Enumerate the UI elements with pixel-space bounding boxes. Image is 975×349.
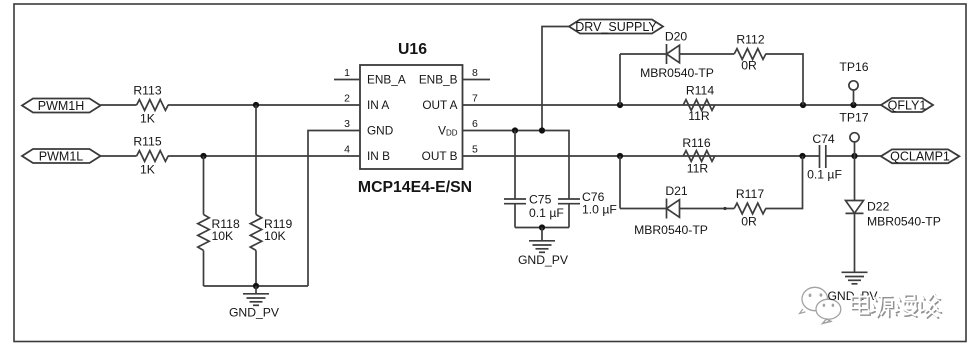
svg-text:ENB_B: ENB_B bbox=[419, 73, 458, 87]
svg-text:IN A: IN A bbox=[367, 98, 389, 112]
resistor R119 bbox=[250, 215, 261, 251]
ground GND_PV left bbox=[243, 286, 269, 305]
junction small D21 R117 bbox=[723, 207, 726, 210]
wire R119 top lead bbox=[255, 105, 257, 215]
wire C76 bottom lead bbox=[568, 204, 570, 228]
wire DRV_SUPPLY to VDD bbox=[542, 27, 569, 131]
wire R112 loop right riser bbox=[765, 54, 803, 105]
svg-text:R116: R116 bbox=[682, 136, 710, 150]
svg-text:R113: R113 bbox=[133, 83, 161, 97]
svg-text:IN B: IN B bbox=[367, 149, 390, 163]
svg-text:GND_PV: GND_PV bbox=[229, 306, 280, 320]
svg-text:4: 4 bbox=[344, 144, 350, 156]
svg-text:2: 2 bbox=[344, 93, 350, 105]
ground GND_PV middle bbox=[529, 228, 555, 253]
wire D21 to R117 bbox=[680, 208, 735, 210]
wire R119 bottom lead bbox=[255, 250, 257, 286]
wire D20 loop left riser bbox=[619, 54, 621, 105]
junction VDD C75 bbox=[512, 127, 518, 133]
resistor R116 bbox=[683, 151, 715, 162]
svg-text:C75: C75 bbox=[529, 193, 552, 207]
svg-text:DRV_SUPPLY: DRV_SUPPLY bbox=[575, 20, 657, 34]
svg-text:QCLAMP1: QCLAMP1 bbox=[890, 150, 950, 164]
capacitor C76 bbox=[558, 199, 580, 204]
svg-text:PWM1H: PWM1H bbox=[38, 99, 85, 113]
svg-text:QFLY1: QFLY1 bbox=[888, 98, 927, 112]
svg-text:C74: C74 bbox=[812, 132, 835, 146]
diode D22 bbox=[846, 201, 864, 214]
svg-text:1K: 1K bbox=[140, 112, 155, 126]
svg-text:GND_PV: GND_PV bbox=[518, 253, 569, 267]
svg-text:3: 3 bbox=[344, 118, 350, 130]
watermark logo bubbles bbox=[802, 287, 841, 323]
resistor R115 bbox=[137, 151, 169, 162]
resistor R112 bbox=[734, 49, 766, 60]
svg-text:0R: 0R bbox=[741, 214, 757, 228]
test point TP16 bbox=[849, 81, 858, 90]
pin 8 stub ENB_B bbox=[463, 79, 491, 81]
svg-text:D22: D22 bbox=[867, 200, 890, 214]
port QFLY1 bbox=[881, 98, 933, 112]
svg-text:0.1 µF: 0.1 µF bbox=[529, 206, 564, 220]
capacitor C74 bbox=[820, 145, 826, 168]
svg-text:D21: D21 bbox=[665, 184, 688, 198]
wire TP16 stem bbox=[853, 90, 855, 105]
wire cap ground rail bbox=[515, 227, 569, 229]
svg-text:11R: 11R bbox=[688, 109, 710, 123]
svg-text:D20: D20 bbox=[665, 30, 688, 44]
wire PWM1H to R113 bbox=[101, 104, 137, 106]
wire pin 3 GND down bbox=[308, 131, 360, 287]
svg-text:R115: R115 bbox=[133, 134, 161, 148]
junction ground rail bbox=[253, 283, 259, 289]
diode D21 bbox=[667, 199, 680, 219]
svg-text:PWM1L: PWM1L bbox=[39, 149, 84, 163]
op-amp U16 body bbox=[360, 65, 463, 169]
junction C74 TP17 D22 bbox=[851, 153, 857, 159]
wire pin 7 OUT A row bbox=[463, 104, 882, 106]
svg-text:1.0 µF: 1.0 µF bbox=[582, 203, 617, 217]
svg-text:R112: R112 bbox=[736, 32, 764, 46]
svg-text:10K: 10K bbox=[212, 229, 234, 243]
wire pin 5 OUT B row bbox=[463, 155, 820, 157]
svg-text:R114: R114 bbox=[686, 84, 714, 98]
wire R118 top lead bbox=[203, 156, 205, 215]
test point TP17 bbox=[850, 133, 859, 142]
junction OUT A TP16 bbox=[850, 102, 856, 108]
port QCLAMP1 bbox=[881, 149, 960, 163]
svg-text:7: 7 bbox=[472, 93, 478, 105]
svg-text:10K: 10K bbox=[264, 229, 286, 243]
wire D21 row left bbox=[620, 208, 667, 210]
svg-text:5: 5 bbox=[472, 144, 478, 156]
wire R118 bottom lead bbox=[203, 250, 205, 286]
wire D22 to ground bbox=[854, 213, 856, 272]
pin 1 stub ENB_A bbox=[334, 79, 360, 81]
junction cap ground rail bbox=[539, 224, 545, 230]
wire C74 to QCLAMP1 bbox=[826, 155, 881, 157]
wire R115 to pin 4 IN B bbox=[168, 155, 360, 157]
svg-text:8: 8 bbox=[472, 67, 478, 79]
svg-text:R117: R117 bbox=[736, 187, 764, 201]
resistor R118 bbox=[198, 215, 209, 251]
port DRV_SUPPLY bbox=[569, 20, 663, 34]
svg-text:11R: 11R bbox=[687, 161, 709, 175]
svg-text:OUT A: OUT A bbox=[422, 98, 457, 112]
svg-text:MCP14E4-E/SN: MCP14E4-E/SN bbox=[358, 179, 472, 196]
junction OUT A to R112 loop right bbox=[800, 102, 806, 108]
wire ground rail R118-R119 bbox=[204, 285, 309, 287]
junction OUT A to D20 loop left bbox=[617, 102, 623, 108]
svg-text:GND: GND bbox=[367, 124, 393, 138]
svg-text:0R: 0R bbox=[741, 58, 757, 72]
svg-text:6: 6 bbox=[472, 118, 478, 130]
resistor R114 bbox=[683, 100, 715, 111]
wire D21 loop left riser bbox=[619, 156, 621, 209]
port PWM1H bbox=[22, 99, 101, 113]
wire C75 top lead bbox=[514, 131, 516, 200]
svg-text:OUT B: OUT B bbox=[422, 149, 458, 163]
svg-text:MBR0540-TP: MBR0540-TP bbox=[867, 215, 941, 229]
port PWM1L bbox=[22, 149, 101, 163]
svg-text:MBR0540-TP: MBR0540-TP bbox=[640, 66, 714, 80]
diode D20 bbox=[667, 44, 680, 64]
wire C75 bottom lead bbox=[514, 204, 516, 228]
junction OUT B to R117 loop right bbox=[799, 153, 805, 159]
svg-text:TP17: TP17 bbox=[839, 111, 868, 125]
wire pin 6 VDD row bbox=[463, 131, 570, 200]
junction R119 top on PWM1H net bbox=[253, 102, 259, 108]
junction R118 top on PWM1L net bbox=[200, 153, 206, 159]
svg-text:U16: U16 bbox=[398, 41, 427, 58]
svg-text:1: 1 bbox=[344, 67, 350, 79]
svg-text:ENB_A: ENB_A bbox=[367, 73, 406, 87]
resistor R117 bbox=[734, 203, 766, 214]
wire R117 loop right riser bbox=[765, 156, 802, 209]
svg-text:0.1 µF: 0.1 µF bbox=[807, 168, 842, 182]
wire R113 to pin 2 IN A bbox=[168, 104, 360, 106]
wire D22 top lead bbox=[854, 156, 856, 201]
svg-text:TP16: TP16 bbox=[839, 60, 868, 74]
ground GND_PV right bbox=[842, 272, 868, 284]
capacitor C75 bbox=[504, 199, 526, 204]
wire D20 row left bbox=[620, 53, 667, 55]
junction OUT B to D21 loop left bbox=[617, 153, 623, 159]
junction VDD supply bbox=[539, 127, 545, 133]
watermark text dian yuan man tan bbox=[852, 293, 942, 318]
svg-text:MBR0540-TP: MBR0540-TP bbox=[634, 223, 708, 237]
wire D20 to R112 bbox=[680, 53, 735, 55]
svg-text:1K: 1K bbox=[140, 163, 155, 177]
resistor R113 bbox=[137, 100, 169, 111]
wire PWM1L to R115 bbox=[101, 155, 137, 157]
wire TP17 stem bbox=[854, 142, 856, 156]
